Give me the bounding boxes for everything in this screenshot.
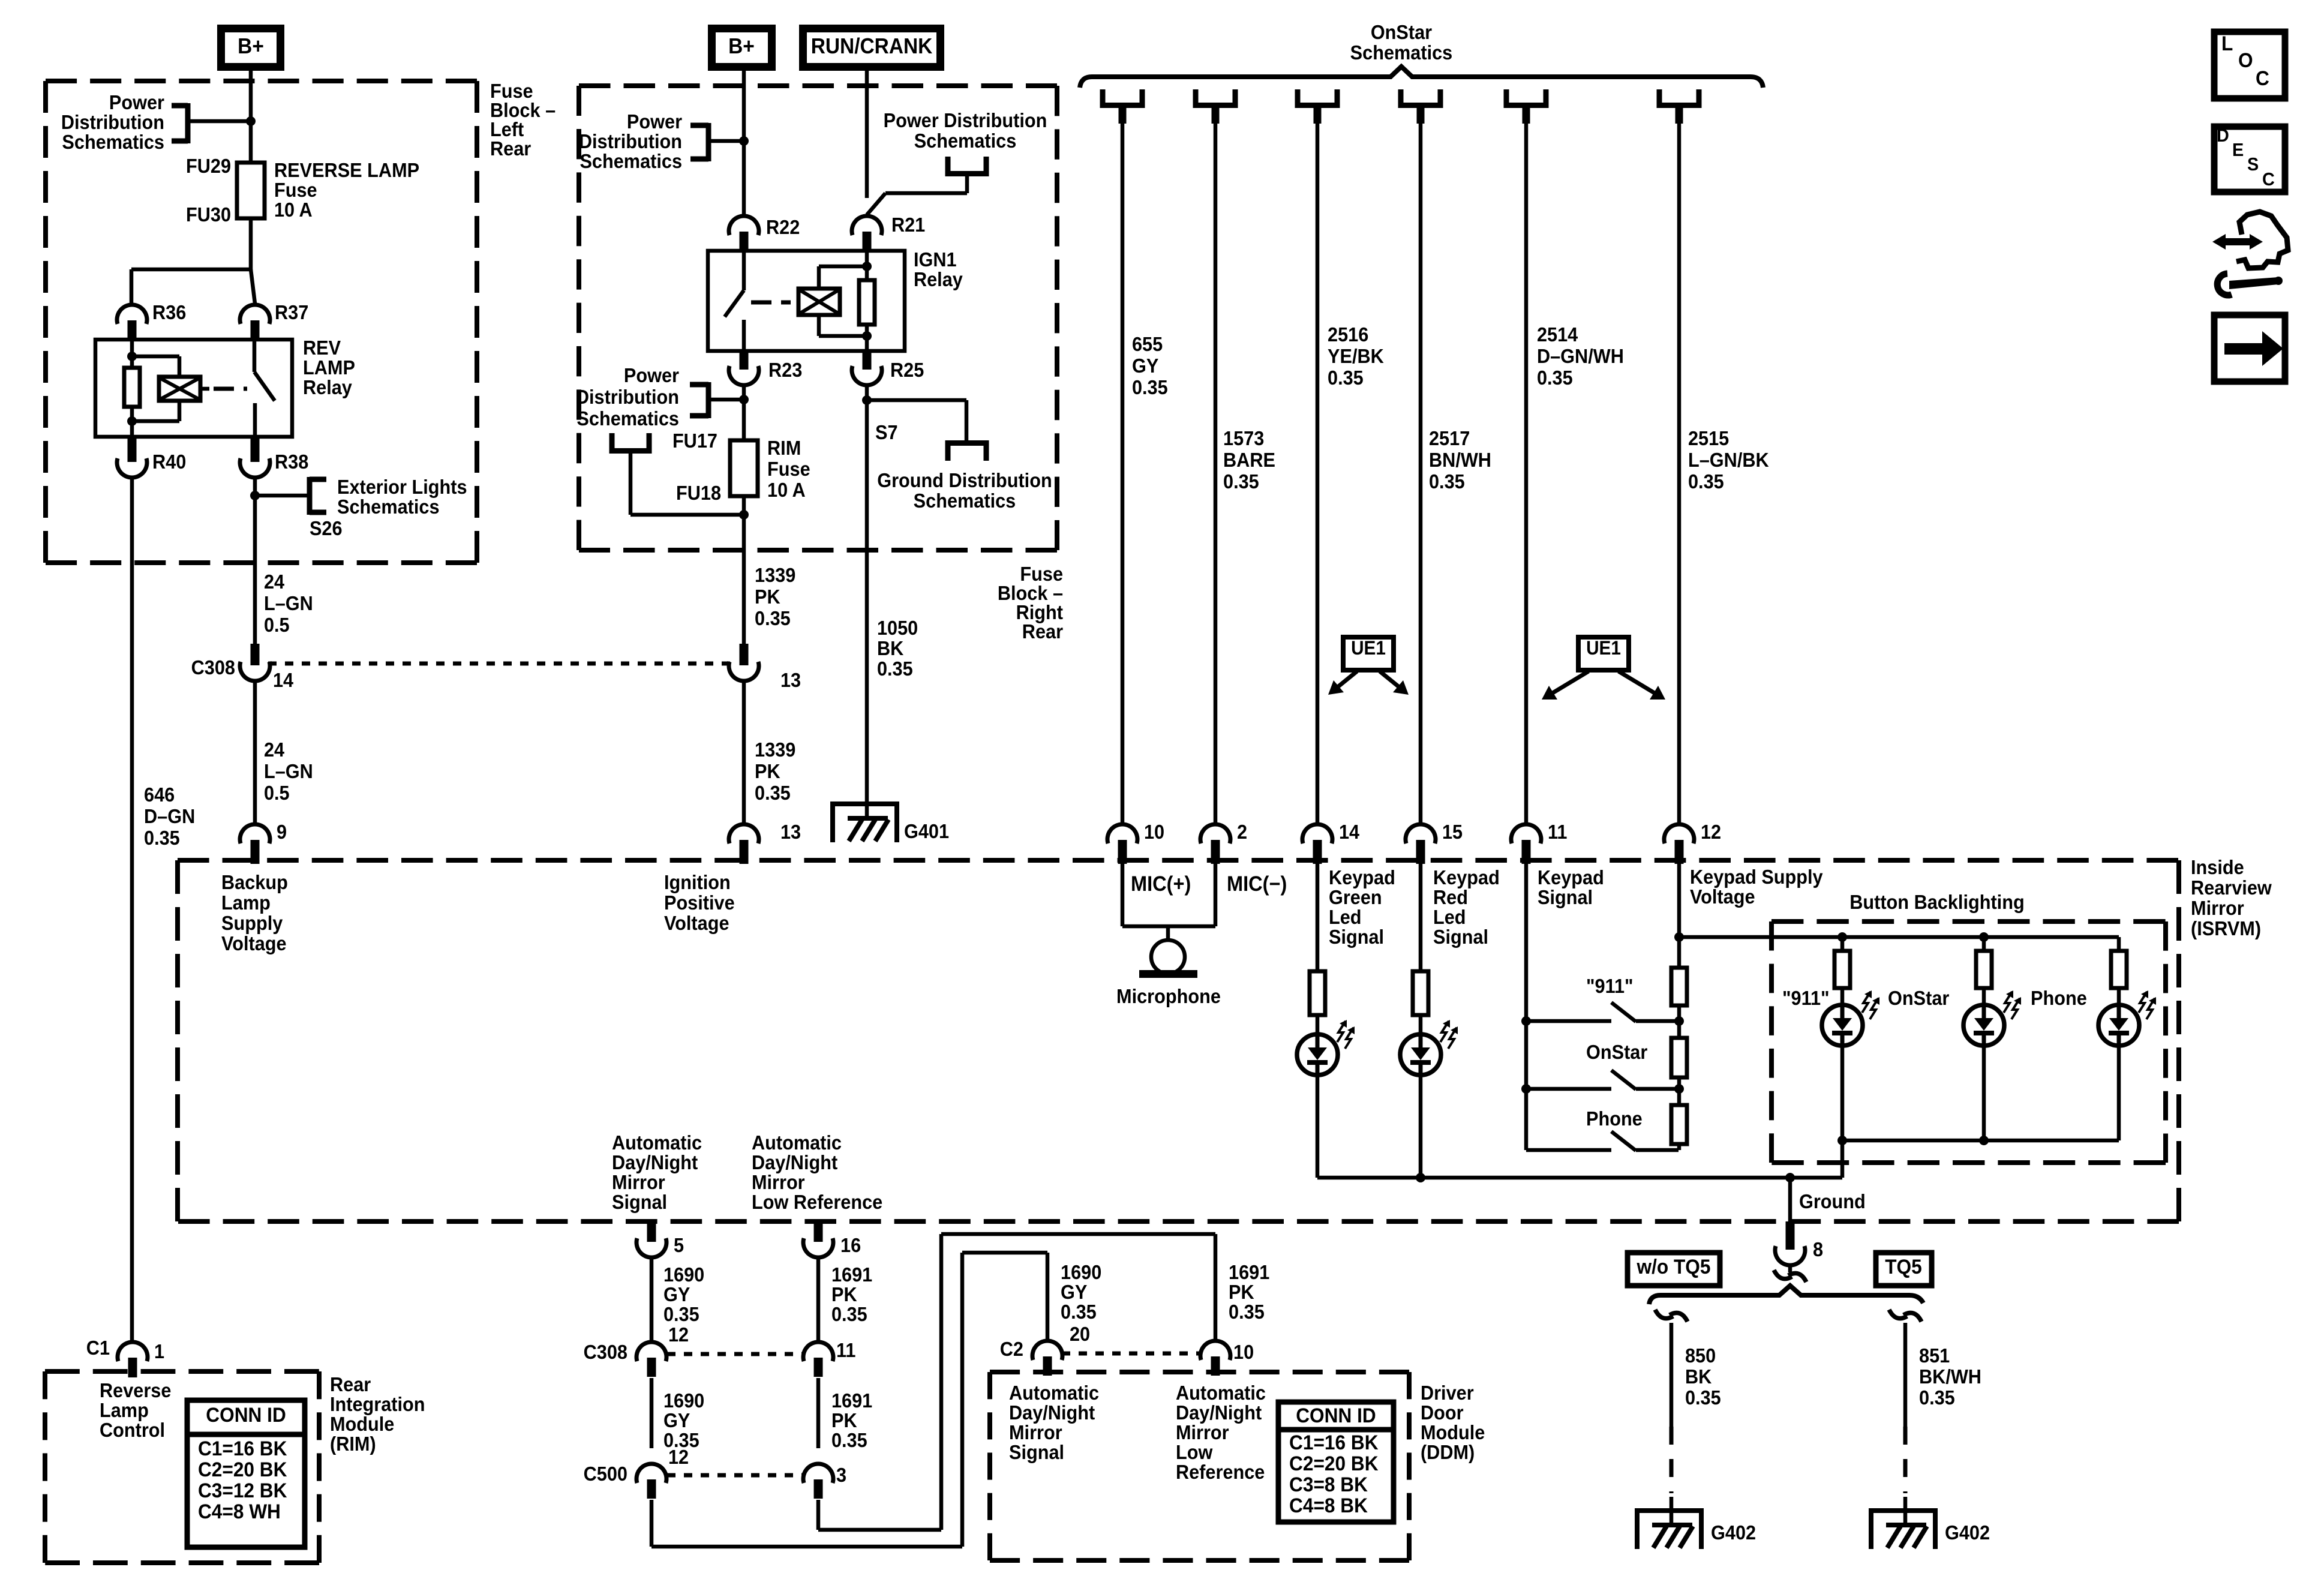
- svg-text:RIM: RIM: [767, 437, 801, 459]
- svg-text:FU17: FU17: [672, 430, 717, 452]
- svg-text:15: 15: [1442, 821, 1463, 843]
- svg-text:REV: REV: [303, 337, 341, 359]
- svg-text:FU29: FU29: [186, 155, 231, 177]
- svg-text:C500: C500: [584, 1463, 627, 1485]
- svg-text:0.5: 0.5: [264, 614, 290, 636]
- svg-text:(RIM): (RIM): [330, 1433, 376, 1455]
- svg-text:1691: 1691: [1229, 1261, 1269, 1283]
- svg-text:C1=16 BK: C1=16 BK: [1289, 1431, 1379, 1454]
- svg-text:UE1: UE1: [1586, 637, 1621, 659]
- svg-text:Exterior Lights: Exterior Lights: [337, 476, 467, 498]
- svg-text:Phone: Phone: [2031, 987, 2087, 1009]
- svg-text:0.35: 0.35: [755, 782, 791, 804]
- svg-text:C2: C2: [1000, 1338, 1023, 1360]
- svg-text:1690: 1690: [663, 1263, 704, 1286]
- svg-text:(DDM): (DDM): [1421, 1441, 1475, 1463]
- svg-text:Keypad: Keypad: [1538, 866, 1604, 888]
- svg-text:"911": "911": [1586, 975, 1634, 997]
- svg-text:C308: C308: [191, 656, 235, 679]
- svg-text:2: 2: [1237, 821, 1247, 843]
- svg-text:BARE: BARE: [1223, 449, 1275, 471]
- svg-text:OnStar: OnStar: [1586, 1041, 1647, 1063]
- svg-text:PK: PK: [831, 1409, 857, 1431]
- svg-text:Signal: Signal: [1009, 1441, 1064, 1463]
- svg-text:0.35: 0.35: [1229, 1301, 1265, 1323]
- svg-text:13: 13: [780, 669, 801, 691]
- svg-text:S7: S7: [875, 421, 898, 443]
- svg-text:3: 3: [836, 1464, 846, 1486]
- svg-text:L: L: [2221, 32, 2233, 55]
- svg-text:12: 12: [1701, 821, 1721, 843]
- svg-text:Day/Night: Day/Night: [612, 1151, 698, 1173]
- svg-text:0.35: 0.35: [755, 607, 791, 629]
- svg-text:Fuse: Fuse: [274, 179, 317, 201]
- svg-text:C308: C308: [584, 1341, 627, 1363]
- svg-text:OnStar: OnStar: [1888, 987, 1949, 1009]
- svg-text:0.35: 0.35: [1061, 1301, 1097, 1323]
- svg-text:RUN/CRANK: RUN/CRANK: [811, 35, 933, 58]
- svg-text:OnStar: OnStar: [1371, 21, 1432, 43]
- svg-text:14: 14: [1339, 821, 1359, 843]
- svg-text:Ground: Ground: [1799, 1190, 1866, 1212]
- svg-text:1: 1: [154, 1340, 164, 1362]
- svg-text:11: 11: [836, 1339, 855, 1361]
- svg-text:Keypad: Keypad: [1433, 866, 1500, 888]
- svg-text:C1: C1: [86, 1337, 110, 1359]
- svg-text:PK: PK: [755, 586, 780, 608]
- svg-text:E: E: [2232, 140, 2244, 160]
- svg-text:CONN ID: CONN ID: [206, 1403, 286, 1426]
- svg-text:0.5: 0.5: [264, 782, 290, 804]
- svg-text:Module: Module: [1421, 1421, 1485, 1443]
- svg-text:646: 646: [144, 784, 175, 806]
- svg-text:8: 8: [1813, 1238, 1823, 1260]
- svg-text:Power Distribution: Power Distribution: [884, 109, 1047, 131]
- svg-text:Rear: Rear: [330, 1373, 371, 1395]
- svg-text:R22: R22: [766, 216, 800, 238]
- svg-text:Phone: Phone: [1586, 1107, 1643, 1130]
- svg-text:Ignition: Ignition: [664, 871, 731, 893]
- svg-text:C: C: [2256, 67, 2269, 89]
- svg-text:PK: PK: [755, 760, 780, 782]
- svg-text:Backup: Backup: [221, 871, 288, 893]
- svg-text:L–GN: L–GN: [264, 592, 313, 614]
- svg-text:C3=8 BK: C3=8 BK: [1289, 1473, 1368, 1496]
- svg-text:0.35: 0.35: [1328, 367, 1364, 389]
- svg-text:C: C: [2262, 169, 2275, 190]
- svg-text:24: 24: [264, 739, 284, 761]
- svg-text:GY: GY: [663, 1409, 690, 1431]
- svg-text:S26: S26: [310, 517, 343, 539]
- svg-text:R21: R21: [891, 214, 925, 236]
- svg-text:Ground Distribution: Ground Distribution: [877, 469, 1052, 491]
- svg-text:0.35: 0.35: [663, 1303, 699, 1325]
- svg-text:2516: 2516: [1328, 323, 1368, 346]
- svg-text:Automatic: Automatic: [1176, 1382, 1266, 1404]
- svg-text:Reverse: Reverse: [100, 1379, 171, 1401]
- svg-text:11: 11: [1548, 821, 1567, 843]
- svg-text:1573: 1573: [1223, 427, 1264, 449]
- svg-text:R37: R37: [275, 301, 308, 323]
- svg-text:Mirror: Mirror: [612, 1171, 665, 1193]
- svg-text:R40: R40: [152, 451, 186, 473]
- svg-text:Day/Night: Day/Night: [752, 1151, 838, 1173]
- svg-text:FU30: FU30: [186, 203, 231, 226]
- svg-text:10: 10: [1233, 1341, 1254, 1363]
- svg-text:Distribution: Distribution: [61, 111, 164, 133]
- svg-text:Lamp: Lamp: [100, 1399, 149, 1421]
- svg-text:G401: G401: [904, 820, 949, 842]
- svg-text:B+: B+: [238, 35, 264, 58]
- svg-text:0.35: 0.35: [831, 1303, 867, 1325]
- svg-text:Automatic: Automatic: [612, 1131, 702, 1154]
- svg-text:Power: Power: [109, 91, 164, 113]
- svg-text:O: O: [2238, 49, 2253, 71]
- svg-text:Signal: Signal: [1538, 886, 1593, 908]
- svg-text:Lamp: Lamp: [221, 891, 271, 914]
- svg-text:Schematics: Schematics: [914, 490, 1016, 512]
- svg-text:0.35: 0.35: [1685, 1386, 1721, 1409]
- svg-text:0.35: 0.35: [1429, 470, 1465, 493]
- svg-text:Mirror: Mirror: [2191, 897, 2244, 919]
- svg-text:10 A: 10 A: [274, 199, 313, 221]
- svg-text:BK: BK: [1685, 1365, 1712, 1388]
- svg-text:9: 9: [277, 821, 287, 843]
- svg-text:Keypad Supply: Keypad Supply: [1690, 866, 1823, 888]
- svg-text:Button Backlighting: Button Backlighting: [1849, 891, 2024, 913]
- svg-text:16: 16: [840, 1234, 861, 1256]
- svg-text:YE/BK: YE/BK: [1328, 345, 1384, 367]
- svg-text:24: 24: [264, 571, 284, 593]
- svg-text:Led: Led: [1433, 906, 1466, 928]
- svg-text:Schematics: Schematics: [914, 130, 1017, 152]
- svg-text:Supply: Supply: [221, 912, 283, 934]
- svg-text:Distribution: Distribution: [576, 386, 679, 408]
- svg-text:Distribution: Distribution: [579, 130, 682, 152]
- svg-text:C2=20 BK: C2=20 BK: [198, 1458, 287, 1481]
- svg-text:Automatic: Automatic: [1009, 1382, 1099, 1404]
- svg-text:851: 851: [1919, 1344, 1950, 1367]
- svg-text:Automatic: Automatic: [752, 1131, 842, 1154]
- svg-text:Signal: Signal: [1329, 926, 1384, 948]
- svg-text:L–GN: L–GN: [264, 760, 313, 782]
- svg-text:2514: 2514: [1537, 323, 1578, 346]
- svg-text:Day/Night: Day/Night: [1176, 1401, 1262, 1424]
- svg-text:12: 12: [668, 1446, 689, 1468]
- svg-text:655: 655: [1132, 333, 1163, 355]
- svg-text:1339: 1339: [755, 739, 795, 761]
- svg-text:Rearview: Rearview: [2191, 876, 2272, 899]
- svg-text:R36: R36: [152, 301, 186, 323]
- svg-text:Microphone: Microphone: [1116, 985, 1221, 1007]
- svg-text:MIC(+): MIC(+): [1131, 872, 1191, 896]
- svg-text:GY: GY: [1132, 355, 1158, 377]
- svg-text:0.35: 0.35: [1919, 1386, 1955, 1409]
- svg-text:Relay: Relay: [303, 376, 352, 398]
- svg-text:0.35: 0.35: [1132, 376, 1168, 398]
- svg-text:12: 12: [668, 1323, 689, 1346]
- svg-text:GY: GY: [663, 1283, 690, 1305]
- svg-text:13: 13: [780, 821, 801, 843]
- svg-text:Mirror: Mirror: [1176, 1421, 1229, 1443]
- svg-text:C4=8 BK: C4=8 BK: [1289, 1494, 1368, 1517]
- svg-text:1691: 1691: [831, 1389, 872, 1412]
- svg-text:Schematics: Schematics: [580, 150, 682, 172]
- svg-text:Voltage: Voltage: [664, 912, 729, 934]
- svg-text:R23: R23: [768, 359, 802, 381]
- svg-text:Door: Door: [1421, 1401, 1464, 1424]
- svg-text:PK: PK: [831, 1283, 857, 1305]
- svg-text:D: D: [2217, 125, 2229, 146]
- svg-text:L–GN/BK: L–GN/BK: [1688, 449, 1769, 471]
- svg-text:Rear: Rear: [490, 137, 531, 160]
- svg-text:Green: Green: [1329, 886, 1382, 908]
- svg-text:MIC(−): MIC(−): [1227, 872, 1287, 896]
- svg-text:Rear: Rear: [1022, 620, 1063, 643]
- svg-text:1050: 1050: [877, 617, 918, 639]
- svg-text:LAMP: LAMP: [303, 356, 355, 379]
- svg-text:w/o TQ5: w/o TQ5: [1637, 1255, 1711, 1278]
- svg-text:5: 5: [674, 1234, 684, 1256]
- svg-text:2515: 2515: [1688, 427, 1729, 449]
- svg-text:Mirror: Mirror: [1009, 1421, 1062, 1443]
- svg-text:14: 14: [273, 669, 293, 691]
- svg-text:BK/WH: BK/WH: [1919, 1365, 1981, 1388]
- svg-text:D–GN: D–GN: [144, 805, 195, 827]
- svg-text:UE1: UE1: [1351, 637, 1386, 659]
- svg-text:R38: R38: [275, 451, 308, 473]
- svg-text:Mirror: Mirror: [752, 1171, 805, 1193]
- svg-text:G402: G402: [1945, 1521, 1990, 1544]
- svg-text:Control: Control: [100, 1419, 165, 1441]
- svg-text:B+: B+: [728, 35, 755, 58]
- svg-text:Positive: Positive: [664, 891, 735, 914]
- svg-text:BN/WH: BN/WH: [1429, 449, 1491, 471]
- svg-text:850: 850: [1685, 1344, 1716, 1367]
- svg-text:Module: Module: [330, 1413, 394, 1435]
- svg-text:(ISRVM): (ISRVM): [2191, 917, 2261, 939]
- svg-text:10: 10: [1144, 821, 1164, 843]
- svg-text:Red: Red: [1433, 886, 1468, 908]
- svg-text:BK: BK: [877, 637, 903, 659]
- svg-text:R25: R25: [890, 359, 924, 381]
- svg-text:Inside: Inside: [2191, 856, 2244, 878]
- svg-text:Low Reference: Low Reference: [752, 1191, 882, 1213]
- svg-text:Signal: Signal: [1433, 926, 1488, 948]
- svg-text:S: S: [2247, 154, 2259, 175]
- svg-text:TQ5: TQ5: [1885, 1255, 1922, 1278]
- svg-text:0.35: 0.35: [1223, 470, 1259, 493]
- svg-text:Power: Power: [627, 110, 682, 133]
- svg-text:C3=12 BK: C3=12 BK: [198, 1479, 287, 1502]
- svg-text:1339: 1339: [755, 564, 795, 586]
- svg-text:C2=20 BK: C2=20 BK: [1289, 1452, 1379, 1475]
- svg-text:0.35: 0.35: [1688, 470, 1724, 493]
- svg-text:Low: Low: [1176, 1441, 1213, 1463]
- svg-text:Schematics: Schematics: [1350, 41, 1453, 64]
- svg-text:D–GN/WH: D–GN/WH: [1537, 345, 1624, 367]
- svg-text:Schematics: Schematics: [577, 407, 679, 430]
- svg-text:1690: 1690: [663, 1389, 704, 1412]
- svg-text:20: 20: [1070, 1323, 1090, 1345]
- svg-text:G402: G402: [1711, 1521, 1756, 1544]
- svg-text:GY: GY: [1061, 1281, 1087, 1303]
- svg-text:Driver: Driver: [1421, 1382, 1474, 1404]
- svg-text:Led: Led: [1329, 906, 1362, 928]
- svg-text:1690: 1690: [1061, 1261, 1101, 1283]
- svg-text:0.35: 0.35: [877, 658, 913, 680]
- svg-text:Keypad: Keypad: [1329, 866, 1395, 888]
- svg-text:PK: PK: [1229, 1281, 1254, 1303]
- svg-text:Reference: Reference: [1176, 1461, 1265, 1483]
- svg-text:2517: 2517: [1429, 427, 1470, 449]
- svg-text:Signal: Signal: [612, 1191, 667, 1213]
- svg-text:C4=8 WH: C4=8 WH: [198, 1500, 281, 1523]
- svg-text:Power: Power: [624, 364, 679, 386]
- svg-text:0.35: 0.35: [1537, 367, 1573, 389]
- svg-text:10 A: 10 A: [767, 479, 806, 501]
- svg-text:Voltage: Voltage: [221, 932, 287, 954]
- svg-text:Schematics: Schematics: [337, 496, 440, 518]
- svg-text:Fuse: Fuse: [767, 458, 810, 480]
- svg-text:FU18: FU18: [676, 482, 721, 504]
- svg-text:IGN1: IGN1: [914, 248, 957, 271]
- svg-text:REVERSE LAMP: REVERSE LAMP: [274, 159, 419, 181]
- svg-text:Integration: Integration: [330, 1393, 425, 1415]
- svg-text:0.35: 0.35: [831, 1429, 867, 1451]
- svg-text:1691: 1691: [831, 1263, 872, 1286]
- svg-text:CONN ID: CONN ID: [1296, 1404, 1376, 1427]
- svg-text:Day/Night: Day/Night: [1009, 1401, 1095, 1424]
- svg-text:C1=16 BK: C1=16 BK: [198, 1437, 287, 1460]
- svg-text:Relay: Relay: [914, 268, 963, 290]
- svg-text:"911": "911": [1782, 987, 1830, 1009]
- svg-text:Voltage: Voltage: [1690, 885, 1755, 908]
- svg-text:Schematics: Schematics: [62, 131, 164, 153]
- svg-text:0.35: 0.35: [144, 827, 180, 849]
